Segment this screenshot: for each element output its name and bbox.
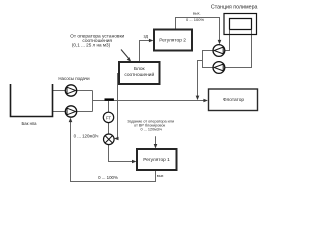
svg-text:0 ... 120м3/ч: 0 ... 120м3/ч: [74, 134, 99, 139]
svg-text:зд: зд: [144, 34, 149, 39]
svg-text:0 ... 120м3/ч: 0 ... 120м3/ч: [140, 128, 161, 132]
svg-text:0 ... 100%: 0 ... 100%: [186, 17, 204, 22]
svg-text:Регулятор 2: Регулятор 2: [159, 37, 186, 43]
svg-text:соотношений: соотношений: [124, 71, 154, 78]
svg-text:вых: вых: [157, 174, 164, 178]
svg-text:вых.: вых.: [193, 12, 201, 16]
svg-text:0 ... 100%: 0 ... 100%: [98, 175, 118, 180]
svg-text:Станция полимера: Станция полимера: [211, 5, 258, 11]
svg-text:(0,1 ... 25 л на м3): (0,1 ... 25 л на м3): [72, 43, 111, 48]
svg-text:Флотатор: Флотатор: [223, 97, 244, 103]
svg-text:FT: FT: [106, 115, 112, 120]
svg-text:Насосы подачи: Насосы подачи: [58, 76, 90, 81]
svg-text:Регулятор 1: Регулятор 1: [143, 157, 170, 163]
svg-text:Блок: Блок: [134, 66, 146, 72]
svg-text:Бак нпа: Бак нпа: [22, 121, 38, 126]
